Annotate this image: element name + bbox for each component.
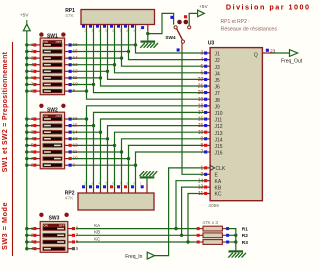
svg-text:17: 17 xyxy=(198,110,204,116)
resistor pack RP2 body xyxy=(78,193,154,210)
svg-text:J5: J5 xyxy=(215,78,221,84)
wire net KC SW3 to R3 xyxy=(76,241,197,243)
svg-text:13: 13 xyxy=(73,136,79,141)
svg-text:7: 7 xyxy=(119,182,121,186)
U3 pin 4 (J2) xyxy=(201,57,220,64)
SW3 pin 3 (left) xyxy=(31,239,40,244)
RP1 pin 6 xyxy=(110,25,115,33)
U3 pin 17 (J10) xyxy=(198,110,223,117)
svg-text:4: 4 xyxy=(98,182,100,186)
SW1 pin 13 (right) xyxy=(65,62,79,67)
wire SW2.9 to U3.J16 (net J16) xyxy=(70,152,204,165)
svg-text:J3: J3 xyxy=(215,65,221,71)
SW3 pin 2 (left) xyxy=(31,233,40,238)
ground GND2 (RP2 common) xyxy=(140,171,158,177)
SW3 pin 7 (right) xyxy=(68,232,79,237)
svg-text:KA: KA xyxy=(215,179,222,185)
wire rail to SW1 pin 7 / node xyxy=(25,83,34,86)
svg-text:R1: R1 xyxy=(242,226,248,232)
SW2 pin 9 (right) xyxy=(65,162,76,167)
SW1 rocker 2 (ON) xyxy=(43,50,62,53)
wire RP1 pin 9 down / node J1 xyxy=(134,28,137,46)
wire U3.KC down to net KC / node xyxy=(186,194,203,244)
RP1 pin 7 xyxy=(117,25,122,33)
svg-text:3: 3 xyxy=(91,182,93,186)
SW1 pin 15 (right) xyxy=(65,49,79,54)
svg-text:J8: J8 xyxy=(215,98,221,104)
SW1 pin 4 (left) xyxy=(31,62,40,67)
U3 pin 22 (J5) xyxy=(198,77,220,84)
svg-text:7: 7 xyxy=(119,29,121,33)
switch SW1 screws xyxy=(39,32,65,36)
svg-text:J16: J16 xyxy=(215,151,223,157)
SW2 pin 1 (left) xyxy=(31,116,40,121)
svg-text:11: 11 xyxy=(73,75,78,80)
wire rail to SW2 pin 2 / node xyxy=(25,124,34,127)
svg-text:2: 2 xyxy=(201,172,204,178)
U3 pin 18 (J9) xyxy=(198,103,220,110)
svg-text:15: 15 xyxy=(198,123,204,129)
svg-text:+5V: +5V xyxy=(199,4,208,10)
wire RP2 pin 6 up / node J13 xyxy=(113,144,116,189)
wire Freq_In to U3.CLK (net CLK) xyxy=(154,168,203,256)
power +5V terminal xyxy=(20,12,30,31)
wire RP2 pin 3 up / node J10 xyxy=(92,124,95,189)
RP2 pin 4 xyxy=(96,182,101,193)
U3 pin 5 (J3) xyxy=(201,64,220,71)
SW1 pin 3 (left) xyxy=(31,55,40,60)
wire SW1.13 to U3.J4 (net J4) xyxy=(70,65,204,73)
SW2 pin 13 (right) xyxy=(65,136,79,141)
svg-text:5: 5 xyxy=(105,182,107,186)
U3 pin 21 (J6) xyxy=(198,84,220,91)
svg-text:22: 22 xyxy=(198,77,204,83)
wire rail to SW3 pin 3 / node xyxy=(25,240,34,243)
svg-text:13: 13 xyxy=(73,62,79,67)
U3 pin 20 (J7) xyxy=(198,90,220,97)
wire SW2.15 to U3.J10 (net J10) xyxy=(70,112,204,125)
svg-text:14: 14 xyxy=(73,129,79,134)
wire net KA SW3 to R1 xyxy=(76,228,197,230)
SW2 pin 11 (right) xyxy=(65,149,78,154)
svg-text:Q: Q xyxy=(254,52,258,58)
SW2 pin 14 (right) xyxy=(65,129,79,134)
SW3 pin 6 (right) xyxy=(68,239,79,244)
SW2 pin 15 (right) xyxy=(65,123,79,128)
svg-text:9: 9 xyxy=(133,182,135,186)
svg-text:U3: U3 xyxy=(208,41,215,47)
RP2 pin 6 xyxy=(110,182,115,193)
U3 pin 9 (J14) xyxy=(201,136,223,143)
SW2 rocker 5 (OFF) xyxy=(43,144,62,147)
SW1 pin 7 (left) xyxy=(31,82,40,87)
svg-text:J10: J10 xyxy=(215,111,223,117)
wire SW2.14 to U3.J11 (net J11) xyxy=(70,119,204,132)
wire RP2 pin 9 up / node J16 xyxy=(134,164,137,189)
wire R1 R2 R3 to ground / nodes xyxy=(228,229,237,252)
wire rail to SW3 pin 2 / node xyxy=(25,234,34,237)
wire rail to SW2 pin 1 / node xyxy=(25,117,34,120)
RP1 pin 3 xyxy=(89,25,94,33)
svg-text:1: 1 xyxy=(139,28,141,32)
SW3 pin 8 (right) xyxy=(68,226,79,231)
svg-text:KC: KC xyxy=(94,236,100,241)
svg-text:R3: R3 xyxy=(242,240,248,246)
SW1 pin 12 (right) xyxy=(65,68,79,73)
SW2 pin 8 (left) xyxy=(31,162,40,167)
svg-text:21: 21 xyxy=(198,84,204,90)
wire RP1 common to ground / node xyxy=(146,31,149,40)
SW2 pin 12 (right) xyxy=(65,143,79,148)
SW2 pin 7 (left) xyxy=(31,156,40,161)
wire rail to SW1 pin 5 / node xyxy=(25,70,34,73)
SW3 rocker 4 (ON) xyxy=(43,247,65,250)
wire rail to SW1 pin 3 / node xyxy=(25,56,34,59)
SW3 rocker 2 (OFF) xyxy=(43,234,65,237)
RP1 pin 1 (common) xyxy=(139,25,148,32)
RP1 pin 5 xyxy=(103,25,108,33)
SW2 rocker 1 (ON) xyxy=(43,117,62,120)
SW2 rocker 7 (OFF) xyxy=(43,157,62,160)
svg-text:16: 16 xyxy=(198,117,204,123)
SW3 pin 1 (left) xyxy=(31,226,40,231)
SW2 rocker 4 (ON) xyxy=(43,137,62,140)
resistor R2 xyxy=(197,233,230,238)
svg-text:4: 4 xyxy=(201,57,204,63)
wire SW2.13 to U3.J12 (net J12) xyxy=(70,126,204,139)
svg-text:SW3: SW3 xyxy=(49,215,60,221)
svg-text:4: 4 xyxy=(98,29,100,33)
svg-text:16: 16 xyxy=(73,42,79,47)
wire SW1.9 to U3.J8 (net J8) xyxy=(70,91,204,99)
RP2 pin 9 xyxy=(131,182,136,193)
svg-text:J13: J13 xyxy=(215,131,223,137)
RP2 pin 7 xyxy=(117,182,122,193)
SW1 pin 6 (left) xyxy=(31,75,40,80)
svg-text:J9: J9 xyxy=(215,104,221,110)
svg-text:J15: J15 xyxy=(215,144,223,150)
SW2 rocker 3 (ON) xyxy=(43,131,62,134)
svg-text:SW2: SW2 xyxy=(47,108,58,114)
wire SW2.12 to U3.J13 (net J13) xyxy=(70,132,204,145)
svg-text:Réseaux de résistances: Réseaux de résistances xyxy=(221,26,278,32)
svg-text:SW1: SW1 xyxy=(47,33,58,39)
RP2 pin 5 xyxy=(103,182,108,193)
wire rail to SW1 pin 2 / node xyxy=(25,50,34,53)
wire RP2 pin 2 up / node J9 xyxy=(85,117,88,188)
U3 pin 16 (J11) xyxy=(198,117,223,124)
wire +5V rail xyxy=(26,31,28,249)
RP2 pin 2 xyxy=(82,182,87,193)
wire SW2.10 to U3.J15 (net J15) xyxy=(70,145,204,158)
IC U3 body (4059) xyxy=(210,48,262,201)
svg-text:RP1: RP1 xyxy=(65,8,75,14)
svg-text:6: 6 xyxy=(112,182,114,186)
SW3 pin 4 (left) xyxy=(31,246,40,251)
wire SW2.11 to U3.J14 (net J14) xyxy=(70,139,204,152)
wire rail to SW1 pin 4 / node xyxy=(25,63,34,66)
power +5V terminal at SW4 xyxy=(198,4,209,17)
wire RP1 pin 4 down / node J6 xyxy=(99,28,102,79)
switch SW2 body xyxy=(40,112,64,169)
wire SW4 pole to U3.E (net E) xyxy=(182,51,204,175)
svg-text:6: 6 xyxy=(112,29,114,33)
svg-text:11: 11 xyxy=(73,149,78,154)
node SW4 pole indicator xyxy=(177,48,180,51)
wire RP1 pin 7 down / node J3 xyxy=(120,28,123,60)
svg-text:J4: J4 xyxy=(215,71,221,77)
SW1 pin 2 (left) xyxy=(31,49,40,54)
SW2 pin 6 (left) xyxy=(31,149,40,154)
svg-text:6: 6 xyxy=(201,70,204,76)
SW1 rocker 3 (ON) xyxy=(43,56,62,59)
ground GND3 (R pack) xyxy=(228,251,246,257)
resistor R3 xyxy=(197,240,230,245)
terminal Freq_Out xyxy=(281,50,303,65)
U3 pin 14 (KA) xyxy=(198,178,222,185)
svg-text:CLK: CLK xyxy=(216,166,226,172)
node SW4 throw B (+5V) indicator xyxy=(184,15,187,18)
wire RP2 pin 5 up / node J12 xyxy=(106,137,109,189)
switch SW2 screws xyxy=(39,104,65,108)
SW2 pin 5 (left) xyxy=(31,143,40,148)
SW1 rocker 1 (ON) xyxy=(43,43,62,46)
svg-text:15: 15 xyxy=(73,123,79,128)
U3 pin 6 (J4) xyxy=(201,70,220,77)
SW2 pin 10 (right) xyxy=(65,156,79,161)
ground GND1 (RP1 common) xyxy=(140,42,158,48)
wire RP1 pin 6 down / node J4 xyxy=(113,28,116,66)
svg-text:3: 3 xyxy=(91,29,93,33)
wire rail to SW2 pin 4 / node xyxy=(25,137,34,140)
svg-text:RP1 et RP2 :: RP1 et RP2 : xyxy=(221,19,250,25)
RP2 pin 8 xyxy=(124,182,129,193)
svg-text:9: 9 xyxy=(201,136,204,142)
SW1 pin 11 (right) xyxy=(65,75,78,80)
svg-text:20: 20 xyxy=(198,90,204,96)
wire rail to SW2 pin 5 / node xyxy=(25,144,34,147)
svg-text:10: 10 xyxy=(198,130,204,136)
SW1 rocker 6 (ON) xyxy=(43,76,62,79)
U3 pin 7 (J16) xyxy=(201,150,223,157)
wire net KB SW3 to R2 xyxy=(76,234,197,236)
wire RP1 pin 5 down / node J5 xyxy=(106,28,109,73)
wire RP1 pin 3 down / node J7 xyxy=(92,28,95,86)
wire SW1.14 to U3.J3 (net J3) xyxy=(70,58,204,66)
wire rail to SW1 pin 1 / node xyxy=(25,43,34,46)
SW1 pin 8 (left) xyxy=(31,88,40,93)
svg-text:12: 12 xyxy=(73,68,79,73)
svg-text:8: 8 xyxy=(126,29,128,33)
SW2 rocker 2 (ON) xyxy=(43,124,62,127)
svg-text:10: 10 xyxy=(73,156,79,161)
wire rail to SW3 pin 4 / node xyxy=(25,247,34,250)
RP2 pin 1 (common) xyxy=(140,182,147,193)
RP1 pin 4 xyxy=(96,25,101,33)
SW1 pin 5 (left) xyxy=(31,69,40,74)
U3 pin 3 (J1) xyxy=(201,51,220,58)
wire rail to SW2 pin 7 / node xyxy=(25,157,34,160)
wire SW1.11 to U3.J6 (net J6) xyxy=(70,78,204,86)
SW2 rocker 6 (ON) xyxy=(43,150,62,153)
wire ground node to SW4 lower throw xyxy=(148,13,174,33)
svg-text:SW1 et SW2 = Prepositionnement: SW1 et SW2 = Prepositionnement xyxy=(2,51,9,172)
svg-text:RP2: RP2 xyxy=(65,190,75,196)
svg-text:SW4: SW4 xyxy=(165,35,176,40)
svg-text:14: 14 xyxy=(73,55,79,60)
svg-text:8: 8 xyxy=(126,182,128,186)
svg-text:J12: J12 xyxy=(215,124,223,130)
U3 pin 8 (J15) xyxy=(201,143,223,150)
SW2 pin 16 (right) xyxy=(65,116,79,121)
wire rail to SW1 pin 8 / node xyxy=(25,89,34,92)
SW1 pin 9 (right) xyxy=(65,88,76,93)
U3 pin 15 (J12) xyxy=(198,123,223,130)
svg-text:J6: J6 xyxy=(215,85,221,91)
svg-text:+5V: +5V xyxy=(20,12,29,18)
SW1 rocker 7 (ON) xyxy=(43,83,62,86)
svg-text:5: 5 xyxy=(105,29,107,33)
svg-text:3: 3 xyxy=(201,51,204,57)
RP2 pin 3 xyxy=(89,182,94,193)
svg-text:5: 5 xyxy=(201,64,204,70)
U3 pin 10 (J13) xyxy=(198,130,223,137)
U3 pin 23 (Q output) xyxy=(254,49,276,59)
switch SW1 body xyxy=(40,38,64,95)
wire SW1.12 to U3.J5 (net J5) xyxy=(70,71,204,79)
svg-text:SW3 = Mode: SW3 = Mode xyxy=(0,202,9,250)
svg-text:16: 16 xyxy=(73,116,79,121)
wire SW2.16 to U3.J9 (net J9) xyxy=(70,106,204,119)
annotation bracket line xyxy=(12,42,14,256)
svg-text:KB: KB xyxy=(215,185,222,191)
wire rail to SW2 pin 8 / node xyxy=(25,164,34,167)
wire SW4 throw B to +5V xyxy=(189,13,198,25)
svg-text:J2: J2 xyxy=(215,58,221,64)
svg-text:47K: 47K xyxy=(65,13,74,19)
wire RP2 pin 8 up / node J15 xyxy=(127,157,130,189)
switch SW3 screws xyxy=(39,213,69,217)
U3 pin 1 (CLK) xyxy=(201,165,226,172)
wire U3.KA down to net KA / node xyxy=(174,181,203,231)
svg-text:J1: J1 xyxy=(215,52,221,58)
svg-text:47K: 47K xyxy=(65,196,74,202)
wire rail to SW2 pin 3 / node xyxy=(25,131,34,134)
svg-text:47K x 3: 47K x 3 xyxy=(202,220,218,225)
wire RP1 pin 2 down / node J8 xyxy=(85,28,88,93)
SW1 rocker 4 (ON) xyxy=(43,63,62,66)
RP1 pin 8 xyxy=(124,25,129,33)
svg-text:15: 15 xyxy=(73,49,79,54)
SW1 rocker 5 (ON) xyxy=(43,70,62,73)
resistor pack RP1 body xyxy=(81,10,155,25)
svg-text:KB: KB xyxy=(94,230,100,235)
wire SW1.16 to U3.J1 (net J1) xyxy=(70,45,204,53)
svg-text:R2: R2 xyxy=(242,233,248,239)
RP1 pin 9 xyxy=(131,25,136,33)
U3 pin 13 (KB) xyxy=(198,185,222,192)
U3 pin 11 (KC) xyxy=(198,191,222,198)
SW3 rocker 1 (OFF) xyxy=(43,227,65,230)
wire SW1.15 to U3.J2 (net J2) xyxy=(70,52,204,60)
SW1 pin 1 (left) xyxy=(31,42,40,47)
U3 pin 19 (J8) xyxy=(198,97,220,104)
switch SW3 body xyxy=(40,222,68,253)
svg-text:12: 12 xyxy=(73,143,79,148)
wire rail to SW2 pin 6 / node xyxy=(25,150,34,153)
SW1 pin 10 (right) xyxy=(65,82,79,87)
wire RP2 pin 7 up / node J14 xyxy=(120,150,123,188)
wire RP2 pin 4 up / node J11 xyxy=(99,131,102,189)
svg-text:1: 1 xyxy=(140,182,142,186)
SW2 pin 2 (left) xyxy=(31,123,40,128)
svg-text:J7: J7 xyxy=(215,91,221,97)
svg-text:18: 18 xyxy=(198,103,204,109)
wire Q to Freq_Out xyxy=(271,52,290,54)
svg-text:4059: 4059 xyxy=(208,203,219,209)
switch SW4 xyxy=(174,20,191,51)
wire RP1 pin 8 down / node J2 xyxy=(127,28,130,53)
node SW4 throw A (GND) indicator xyxy=(170,16,173,19)
note RP1 et RP2 xyxy=(221,19,278,32)
SW3 rocker 3 (OFF) xyxy=(43,240,65,243)
svg-text:2: 2 xyxy=(84,182,86,186)
RP1 pin 2 xyxy=(82,25,87,33)
svg-text:J11: J11 xyxy=(215,118,223,124)
SW2 pin 4 (left) xyxy=(31,136,40,141)
SW2 rocker 8 (ON) xyxy=(43,164,62,167)
SW1 pin 14 (right) xyxy=(65,55,79,60)
svg-text:8: 8 xyxy=(201,143,204,149)
svg-text:19: 19 xyxy=(198,97,204,103)
SW1 pin 16 (right) xyxy=(65,42,79,47)
svg-text:Freq_In: Freq_In xyxy=(125,254,142,260)
wire rail to SW1 pin 6 / node xyxy=(25,76,34,79)
SW2 pin 3 (left) xyxy=(31,129,40,134)
svg-text:KA: KA xyxy=(94,223,100,228)
wire SW1.10 to U3.J7 (net J7) xyxy=(70,85,204,93)
terminal Freq_In xyxy=(125,252,154,260)
resistor R1 xyxy=(197,226,230,231)
wire U3.KB down to net KB / node xyxy=(180,187,204,237)
wire RP2 common to ground xyxy=(146,177,148,183)
svg-text:10: 10 xyxy=(73,82,79,87)
svg-text:7: 7 xyxy=(201,150,204,156)
svg-text:J14: J14 xyxy=(215,137,223,143)
svg-text:KC: KC xyxy=(215,192,222,198)
svg-text:Division par 1000: Division par 1000 xyxy=(226,2,310,11)
svg-text:9: 9 xyxy=(133,29,135,33)
svg-text:2: 2 xyxy=(84,29,86,33)
svg-text:Freq_Out: Freq_Out xyxy=(281,59,303,65)
U3 pin 2 (E) xyxy=(201,172,219,179)
SW1 rocker 8 (ON) xyxy=(43,89,62,92)
wire rail to SW3 pin 1 / node xyxy=(25,227,34,230)
SW3 pin 5 (right) xyxy=(68,246,79,251)
